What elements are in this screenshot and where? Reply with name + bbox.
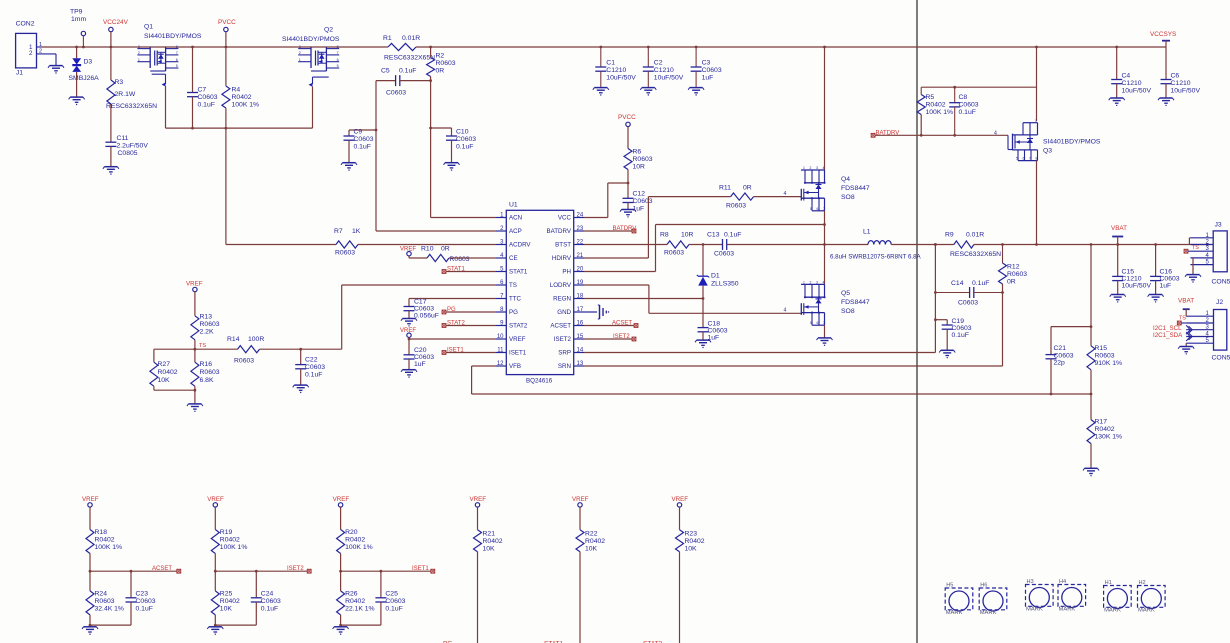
svg-text:7: 7 [823,321,825,325]
svg-text:130K 1%: 130K 1% [1095,434,1123,441]
power flag VREF at pin10 [400,328,496,340]
transistor Q4 FDS8447 [801,166,870,211]
svg-text:4: 4 [784,191,787,197]
svg-text:VREF: VREF [207,496,224,503]
ground C2 [640,88,656,96]
wire switch node to L1 [825,244,869,246]
svg-text:10K: 10K [220,606,233,613]
inductor L1 6.8uH [830,229,922,261]
svg-text:R6: R6 [633,149,642,156]
wire C5 right [400,79,432,82]
svg-text:100K 1%: 100K 1% [926,109,954,116]
svg-text:32.4K 1%: 32.4K 1% [95,606,124,613]
svg-text:H3: H3 [1027,579,1034,585]
wire R23 to STAT2 [679,552,681,643]
svg-text:R0402: R0402 [345,598,365,605]
ground C12 [620,210,636,218]
svg-text:R0603: R0603 [436,60,456,67]
wire HIDRV pin21 [584,197,731,258]
resistor R26 22.1K 1% [337,571,375,625]
ground C6 [1158,98,1174,106]
svg-text:I2C1_SDA: I2C1_SDA [1153,332,1183,339]
wire rail to R4 [225,47,227,86]
transistor Q2 SI4401BDY PMOS [282,27,340,87]
ground C10 [444,163,460,171]
svg-text:H4: H4 [1059,579,1066,585]
wire D3 to ground [76,72,78,97]
capacitor C14 0.1uF [934,280,1003,307]
svg-text:100K 1%: 100K 1% [220,544,248,551]
svg-text:R10: R10 [421,246,434,253]
wire SRP pin14 [584,243,937,352]
svg-text:R15: R15 [1095,345,1108,352]
svg-text:2: 2 [29,50,33,57]
svg-text:1uF: 1uF [1160,283,1172,290]
svg-text:C10: C10 [456,129,469,136]
resistor R4 100K [222,86,259,109]
svg-text:15: 15 [577,334,584,340]
svg-text:C12: C12 [633,191,646,198]
wire Q4 source to switch node [824,211,826,285]
resistor R9 0.01R [945,232,1001,259]
svg-text:14: 14 [577,348,584,354]
svg-text:4: 4 [823,166,825,170]
svg-text:RESC6332X65N: RESC6332X65N [106,103,157,110]
svg-text:STAT1: STAT1 [509,269,528,276]
svg-text:1K: 1K [352,228,361,235]
svg-text:10uF/50V: 10uF/50V [606,75,636,82]
capacitor C10 0.1uF [446,129,476,151]
svg-text:8: 8 [337,45,339,49]
wire BTST pin22 [584,244,667,246]
wire C24 to ground node [214,624,256,627]
svg-text:3: 3 [138,45,140,49]
svg-text:1: 1 [138,58,140,62]
svg-text:4: 4 [994,130,997,136]
svg-text:100K 1%: 100K 1% [95,544,123,551]
connector J1 CON2 [16,21,56,77]
svg-text:C1: C1 [606,60,615,67]
port ACSET [152,566,181,573]
svg-text:R0402: R0402 [1095,426,1115,433]
capacitor C9 0.1uF [344,129,374,151]
svg-text:C7: C7 [198,87,207,94]
ground R24 [82,627,98,635]
wire main input rail [41,46,1166,48]
svg-text:0R: 0R [743,185,752,192]
svg-text:PG: PG [509,309,518,316]
svg-text:ACSET: ACSET [550,323,571,330]
svg-text:MARK: MARK [980,610,997,616]
svg-text:6.8uH SWRB1207S-6R8NT 6.8A: 6.8uH SWRB1207S-6R8NT 6.8A [830,254,922,261]
svg-text:H1: H1 [1105,580,1112,586]
svg-text:VFB: VFB [509,363,521,370]
svg-text:4: 4 [823,280,825,284]
svg-text:R23: R23 [685,531,698,538]
wire R6 to C12 [627,170,629,199]
resistor R12 0R [999,243,1028,285]
power flag PVCC [218,19,236,48]
net label I2C1_SCL [1153,325,1192,334]
svg-text:10R: 10R [681,232,694,239]
svg-text:C0603: C0603 [714,251,734,258]
svg-text:STAT2: STAT2 [509,323,528,330]
svg-text:C24: C24 [261,591,274,598]
svg-text:R16: R16 [200,361,213,368]
resistor R20 100K [337,529,373,554]
svg-text:SMBJ26A: SMBJ26A [69,75,100,82]
wire ACDRV net [226,128,496,244]
port TS at J2 [1177,316,1186,325]
svg-text:D1: D1 [711,273,720,280]
mounting hole H2 [1138,580,1166,614]
svg-text:C0603: C0603 [633,198,653,205]
svg-text:0.1uF: 0.1uF [305,372,322,379]
capacitor C8 0.1uF [949,87,979,137]
svg-text:VREF: VREF [672,496,689,503]
svg-text:MARK: MARK [946,610,963,616]
svg-text:C0603: C0603 [261,598,281,605]
svg-text:22p: 22p [1054,360,1066,367]
svg-text:7: 7 [1029,157,1031,161]
svg-text:VBAT: VBAT [1178,298,1194,305]
svg-text:R11: R11 [719,185,731,192]
power flag VREF at R18 [82,496,99,530]
svg-text:0.056uF: 0.056uF [414,313,439,320]
svg-text:10uF/50V: 10uF/50V [1122,88,1152,95]
svg-text:R27: R27 [158,361,171,368]
testpoint TP9 [70,9,86,49]
svg-text:FDS8447: FDS8447 [841,185,870,192]
ground C22 [293,385,309,393]
svg-text:2R.1W: 2R.1W [115,91,136,98]
svg-text:C0805: C0805 [118,150,138,157]
svg-text:C1210: C1210 [1171,80,1191,87]
svg-text:BATDRV: BATDRV [546,228,571,235]
capacitor C7 0.1uF [187,87,218,109]
svg-text:R0603: R0603 [450,256,470,263]
svg-text:BTST: BTST [555,242,571,249]
svg-text:C2: C2 [654,60,663,67]
net label STAT2 [643,640,663,643]
svg-text:R0402: R0402 [232,94,252,101]
wire D3 to rail [75,46,78,59]
svg-text:0R: 0R [436,68,445,75]
svg-text:BQ24616: BQ24616 [526,378,553,385]
net label PG [443,640,452,643]
capacitor C18 1uF [698,321,728,342]
resistor R15 910K [1087,345,1122,370]
svg-text:6: 6 [817,321,819,325]
svg-text:MARK: MARK [1059,607,1076,613]
capacitor C23 0.1uF [126,570,156,625]
svg-text:C19: C19 [952,318,965,325]
connector J3 CON5 [1190,222,1230,286]
svg-text:R14: R14 [227,336,240,343]
svg-text:R0402: R0402 [926,102,946,109]
svg-text:10uF/50V: 10uF/50V [1171,88,1201,95]
svg-text:LODRV: LODRV [550,282,572,289]
svg-text:STAT1: STAT1 [447,267,465,273]
capacitor C15 10uF/50V [1112,245,1151,295]
diode D1 ZLLS350 [697,245,739,288]
capacitor C11 2.2uF/50V [105,135,148,157]
svg-text:RESC6332X65N: RESC6332X65N [950,251,1001,258]
svg-text:C0603: C0603 [136,598,156,605]
svg-text:VREF: VREF [509,336,526,343]
svg-text:R0402: R0402 [345,537,365,544]
ground R16 [187,404,203,412]
wire R27 R16 join [154,389,196,404]
resistor R24 32.4K 1% [86,571,124,625]
wire Q2 gate down [312,87,314,129]
resistor R25 10K [211,571,240,625]
svg-text:R2: R2 [436,53,445,60]
wire C5 left [376,80,395,82]
svg-text:11: 11 [497,348,504,354]
power flag VCC24V [103,19,129,48]
port BATDRV source [871,130,1008,137]
mounting hole H5 [945,583,973,617]
wire R15 to VFB node [1090,370,1093,420]
power flag VBAT at J2 [1178,298,1194,317]
wire C10 to ground [451,140,453,163]
svg-text:7: 7 [823,207,825,211]
capacitor C6 10uF/50V [1161,47,1201,98]
svg-text:PVCC: PVCC [618,114,636,121]
svg-text:C6: C6 [1171,73,1180,80]
svg-text:D3: D3 [84,59,93,66]
svg-text:6: 6 [176,58,178,62]
power flag VREF at R20 [333,496,350,530]
svg-text:C0603: C0603 [702,67,722,74]
svg-text:R0603: R0603 [726,203,746,210]
svg-text:ACP: ACP [509,228,522,235]
ground D3 [69,97,85,105]
svg-text:0.1uF: 0.1uF [354,144,371,151]
wire C11 to ground [110,146,112,166]
svg-text:0.1uF: 0.1uF [456,144,473,151]
svg-text:0.1uF: 0.1uF [136,606,153,613]
svg-text:10: 10 [497,334,504,340]
svg-text:TP9: TP9 [70,9,83,16]
svg-text:C14: C14 [951,280,964,287]
capacitor C13 0.1uF [707,232,741,258]
wire R20 to ISET1 node [339,554,431,573]
wire C10 tap [429,127,451,136]
port ISET2 at pin15 [584,334,636,341]
svg-text:I2C1_SCL: I2C1_SCL [1153,325,1182,332]
svg-text:12: 12 [497,361,504,367]
svg-text:C25: C25 [385,591,398,598]
svg-text:100K 1%: 100K 1% [232,102,260,109]
svg-text:R21: R21 [483,531,496,538]
port ISET1 [442,348,496,355]
svg-text:FDS8447: FDS8447 [841,299,870,306]
svg-text:R4: R4 [232,87,241,94]
svg-text:0.1uF: 0.1uF [399,68,416,75]
power flag VBAT [1111,225,1127,246]
wire Q3 to VBAT [1035,161,1038,246]
svg-text:C0603: C0603 [959,102,979,109]
svg-text:R0603: R0603 [633,156,653,163]
svg-text:0.1uF: 0.1uF [198,102,215,109]
resistor R19 100K [211,529,247,554]
net label STAT1 [544,640,564,643]
svg-text:C16: C16 [1160,269,1173,276]
resistor R21 10K [474,530,503,553]
svg-text:C0603: C0603 [414,354,434,361]
wire TTC pin7 to C17 [409,299,496,307]
svg-text:17: 17 [577,307,584,313]
svg-text:R1: R1 [383,35,392,42]
svg-text:C0603: C0603 [708,328,728,335]
svg-text:C5: C5 [381,68,390,75]
svg-text:910K 1%: 910K 1% [1095,360,1123,367]
svg-text:C1210: C1210 [606,67,626,74]
svg-text:6.8K: 6.8K [200,377,214,384]
svg-text:Q4: Q4 [841,176,850,183]
svg-text:10R: 10R [633,164,646,171]
svg-text:GND: GND [557,309,571,316]
wire J2 pin5 ground [1185,343,1187,346]
ground J1 pin2 [48,66,64,74]
svg-text:100K 1%: 100K 1% [345,544,373,551]
svg-text:CON5: CON5 [1212,355,1230,362]
resistor R23 10K [676,530,705,553]
svg-text:R0603: R0603 [200,321,220,328]
svg-text:0R: 0R [1007,279,1016,286]
svg-text:CE: CE [509,255,518,262]
svg-text:2.2uF/50V: 2.2uF/50V [117,143,149,150]
resistor R14 100R [227,336,264,365]
svg-text:R3: R3 [115,79,124,86]
svg-text:VBAT: VBAT [1111,225,1127,232]
mounting hole H1 [1104,580,1132,614]
svg-text:1uF: 1uF [702,75,714,82]
svg-text:1: 1 [803,166,805,170]
svg-text:R24: R24 [95,591,108,598]
svg-text:R0603: R0603 [200,369,220,376]
svg-text:R0603: R0603 [234,358,254,365]
svg-text:C0603: C0603 [198,94,218,101]
port ACSET at pin16 [584,321,638,328]
capacitor C4 10uF/50V [1111,46,1151,98]
svg-text:3: 3 [816,166,818,170]
svg-text:Q2: Q2 [324,27,333,34]
svg-text:R0402: R0402 [685,538,705,545]
svg-text:J1: J1 [16,70,23,77]
svg-text:6: 6 [337,58,339,62]
resistor R18 100K [86,529,122,554]
svg-text:C15: C15 [1122,269,1135,276]
svg-text:1mm: 1mm [71,16,86,23]
wire TS line [154,285,342,351]
svg-text:19: 19 [577,280,584,286]
svg-text:VCCSYS: VCCSYS [1150,31,1176,38]
port ISET1 [412,566,435,573]
wire rail to R2 [429,46,432,58]
svg-text:23: 23 [577,226,584,232]
power flag VREF at R21 [470,496,487,530]
svg-text:0.1uF: 0.1uF [724,232,741,239]
svg-text:ISET2: ISET2 [613,334,630,340]
svg-text:0.1uF: 0.1uF [261,606,278,613]
wire C19 ground [946,329,948,350]
svg-text:ISET1: ISET1 [509,350,527,357]
svg-text:0.1uF: 0.1uF [972,280,989,287]
wire VCCSYS to R5 C8 top [921,46,1038,121]
svg-text:R0402: R0402 [220,537,240,544]
svg-text:ACSET: ACSET [612,321,632,327]
port STAT2 [442,321,496,328]
svg-text:2: 2 [138,51,140,55]
wire REGN to C18 [702,299,704,328]
capacitor C22 0.1uF [295,349,325,385]
svg-text:R5: R5 [926,94,935,101]
svg-text:C20: C20 [414,347,427,354]
mounting hole H4 [1058,579,1086,613]
svg-text:TS: TS [1179,316,1186,322]
wire rail to R3 [110,47,112,80]
wire R12 to C14 node [1001,284,1004,294]
node switch junction [823,243,826,246]
svg-text:1: 1 [299,58,301,62]
wire SRN pin13 [584,293,1003,367]
wire Q3 gate lead [1008,135,1013,149]
ground R25 [207,627,223,635]
port STAT1 [442,267,496,274]
svg-text:20: 20 [577,267,584,273]
wire C18 ground [702,332,704,340]
svg-text:R13: R13 [200,314,213,321]
wire VCC pin24 [584,182,629,218]
wire C19 tap [934,318,947,325]
svg-text:VCC24V: VCC24V [103,19,129,26]
svg-text:MARK: MARK [1026,607,1043,613]
svg-text:5: 5 [337,64,339,68]
wire R22 to STAT1 [579,552,581,643]
svg-text:C17: C17 [414,299,427,306]
svg-text:24: 24 [577,213,584,219]
resistor R27 10K [150,349,178,390]
svg-text:R19: R19 [220,529,233,536]
svg-text:TTC: TTC [509,296,522,303]
svg-text:CON5: CON5 [1212,279,1230,286]
svg-text:L1: L1 [863,229,871,236]
wire C9 tap [349,129,377,136]
capacitor C5 0.1uF [381,68,416,97]
svg-text:R22: R22 [585,531,598,538]
svg-text:100R: 100R [248,336,264,343]
svg-text:C4: C4 [1122,73,1131,80]
svg-text:C0603: C0603 [958,300,978,307]
svg-text:7: 7 [337,51,339,55]
svg-text:VREF: VREF [470,496,487,503]
svg-text:R25: R25 [220,591,233,598]
svg-text:C0603: C0603 [305,364,325,371]
svg-text:3: 3 [299,45,301,49]
svg-text:5: 5 [810,207,812,211]
wire ACN net vertical [431,81,496,218]
capacitor C17 0.056uF [404,299,439,320]
svg-text:7: 7 [176,51,178,55]
svg-text:U1: U1 [509,202,518,209]
svg-text:10K: 10K [685,546,698,553]
transistor Q5 FDS8447 [801,280,870,325]
svg-text:SO8: SO8 [841,194,855,201]
svg-text:SI4401BDY/PMOS: SI4401BDY/PMOS [1043,139,1101,146]
